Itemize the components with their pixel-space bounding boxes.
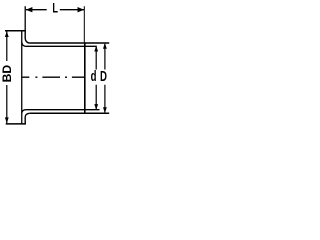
d bottom arrow: [94, 104, 98, 110]
L extension line right (above sleeve end): [83, 6, 85, 42]
flange top edge + BD extension line: [5, 30, 26, 32]
flange right face upper + outer bend fillet: [25, 30, 30, 43]
svg-text:BD: BD: [0, 65, 14, 83]
L right arrow: [78, 7, 85, 12]
svg-text:D: D: [100, 68, 107, 84]
svg-text:L: L: [52, 1, 58, 16]
sleeve right end face: [84, 42, 86, 114]
dimension lines: [7, 6, 105, 123]
L extension line left (above flange): [24, 6, 26, 30]
L dimension line: [26, 9, 84, 11]
D top arrow: [103, 43, 107, 49]
flange right face lower + outer bend fillet: [25, 113, 30, 124]
D dimension line: [104, 44, 106, 113]
BD bottom arrow: [5, 117, 9, 123]
flange bottom edge + BD extension line: [6, 123, 26, 125]
d dimension line: [95, 47, 97, 109]
sleeve bore lower line + d extension: [26, 109, 100, 111]
center line (dash-dot axis): [22, 76, 84, 78]
arrowheads: [5, 7, 107, 123]
L left arrow: [26, 7, 33, 12]
sleeve outer lower line + D extension: [30, 112, 110, 114]
sleeve bore upper line + d extension: [26, 45, 97, 47]
inner bend lower (left face to bore): [22, 110, 26, 113]
D bottom arrow: [103, 107, 107, 113]
bushing outline: [5, 30, 109, 124]
svg-text:d: d: [91, 68, 97, 84]
d top arrow: [94, 46, 98, 52]
flange left face: [21, 30, 23, 124]
sleeve outer upper line + D extension: [30, 42, 110, 44]
inner bend upper (left face to bore): [22, 43, 26, 47]
BD dimension line: [6, 31, 8, 123]
BD top arrow: [5, 31, 9, 37]
